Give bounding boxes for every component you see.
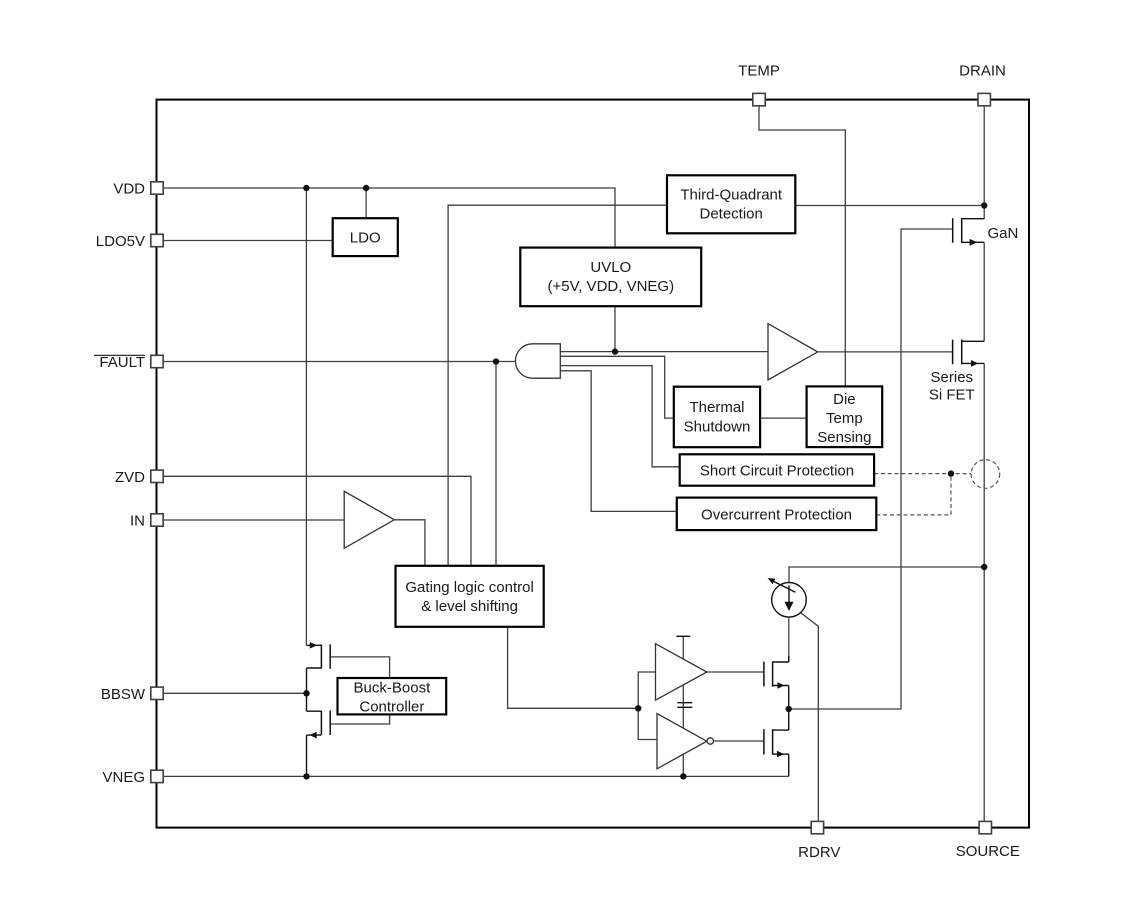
wire VDD rail to UVLO bbox=[163, 188, 615, 248]
buffer upper gate driver bbox=[656, 644, 707, 701]
svg-text:BBSW: BBSW bbox=[101, 686, 146, 703]
svg-text:LDO5V: LDO5V bbox=[96, 233, 145, 250]
wire IN bbox=[163, 519, 344, 521]
dashed net Short Circuit Protection to sense node bbox=[874, 473, 971, 475]
capacitor between driver buffers bbox=[677, 703, 692, 708]
current source to RDRV bbox=[768, 578, 807, 617]
block LDO bbox=[333, 218, 398, 256]
svg-text:Sensing: Sensing bbox=[817, 429, 871, 446]
wire DRAIN pin bbox=[983, 106, 985, 219]
svg-text:& level shifting: & level shifting bbox=[421, 598, 518, 615]
label GaN bbox=[988, 225, 1019, 242]
transistor upper driver FET bbox=[764, 656, 789, 709]
pin VNEG bbox=[102, 769, 163, 786]
svg-text:Thermal: Thermal bbox=[689, 399, 744, 416]
pin IN bbox=[130, 513, 163, 530]
svg-text:SOURCE: SOURCE bbox=[956, 843, 1020, 860]
transistor buck-boost low side bbox=[307, 693, 331, 776]
wire buffer to Si FET gate bbox=[818, 351, 953, 353]
svg-text:Buck-Boost: Buck-Boost bbox=[354, 680, 432, 697]
wire Third-Quadrant to drain node bbox=[795, 205, 984, 207]
svg-text:VDD: VDD bbox=[113, 181, 145, 198]
block Overcurrent Protection bbox=[677, 498, 877, 530]
junction dot FAULT gating bbox=[493, 358, 499, 364]
svg-text:Series: Series bbox=[931, 369, 974, 386]
buffer IN input bbox=[344, 491, 394, 548]
svg-text:DRAIN: DRAIN bbox=[959, 62, 1006, 79]
pin RDRV bbox=[798, 821, 840, 861]
AND gate for FAULT bbox=[515, 344, 560, 378]
wire UVLO to AND and buffer bbox=[560, 306, 768, 351]
junction dot BBSW bbox=[303, 690, 309, 696]
wire gating logic to Third-Quadrant bbox=[448, 205, 667, 566]
svg-text:IN: IN bbox=[130, 513, 145, 530]
wire AND input 3 to Short Circuit Protection bbox=[560, 366, 679, 467]
wire buck-boost gate lower bbox=[330, 714, 389, 724]
svg-text:Overcurrent Protection: Overcurrent Protection bbox=[701, 507, 852, 524]
transistor buck-boost high side bbox=[307, 642, 331, 693]
junction dot driver output bbox=[786, 706, 792, 712]
wire buck-boost gate upper bbox=[330, 657, 389, 678]
svg-text:Third-Quadrant: Third-Quadrant bbox=[680, 187, 783, 204]
wire Si FET source to SOURCE pin bbox=[983, 363, 985, 821]
block Die Temp Sensing bbox=[807, 386, 883, 447]
svg-text:Gating logic control: Gating logic control bbox=[405, 579, 533, 596]
dashed net Overcurrent Protection to sense node bbox=[876, 474, 951, 515]
svg-text:Short Circuit Protection: Short Circuit Protection bbox=[700, 463, 854, 480]
pin BBSW bbox=[101, 686, 163, 703]
svg-text:Si FET: Si FET bbox=[929, 386, 975, 403]
block Thermal Shutdown bbox=[674, 387, 760, 448]
inverter lower gate driver bbox=[657, 714, 714, 769]
pin DRAIN bbox=[959, 62, 1006, 106]
wire FAULT bbox=[163, 361, 515, 363]
junction dot drain node bbox=[981, 202, 987, 208]
sense element dashed circle bbox=[971, 460, 1000, 489]
wire FAULT to gating logic bbox=[495, 362, 497, 566]
pin FAULT (active low) bbox=[94, 354, 163, 371]
wire lower driver buffer output bbox=[714, 740, 764, 742]
wire VNEG rail bbox=[163, 775, 789, 777]
svg-text:VNEG: VNEG bbox=[102, 769, 145, 786]
junction dot UVLO AND input bbox=[612, 348, 618, 354]
wire gating logic to driver input node bbox=[508, 627, 639, 708]
wire LDO stub bbox=[365, 188, 367, 218]
junction dot VNEG left bbox=[303, 773, 309, 779]
svg-text:Detection: Detection bbox=[700, 206, 763, 223]
buffer Si FET driver bbox=[768, 324, 818, 380]
junction dot source sense bbox=[981, 564, 987, 570]
wire AND input 2 to Thermal Shutdown bbox=[560, 356, 674, 418]
junction dot VDD LDO bbox=[363, 185, 369, 191]
pin LDO5V bbox=[96, 233, 163, 250]
svg-text:TEMP: TEMP bbox=[738, 62, 780, 79]
junction dot VNEG buffer bbox=[680, 773, 686, 779]
svg-text:Controller: Controller bbox=[359, 699, 424, 716]
wire TEMP to Die Temp Sensing bbox=[759, 106, 845, 386]
wire IN buffer to gating logic bbox=[394, 520, 425, 566]
wire current source to source node bbox=[789, 567, 984, 583]
junction dot dashed net bbox=[948, 470, 954, 476]
transistor Series Si FET bbox=[953, 339, 985, 366]
svg-text:Die: Die bbox=[833, 391, 856, 408]
wire GaN source to Si FET drain bbox=[983, 242, 985, 341]
wire Thermal Shutdown to Die Temp Sensing bbox=[760, 417, 807, 419]
svg-text:LDO: LDO bbox=[350, 230, 381, 247]
label Series Si FET bbox=[929, 369, 975, 404]
wire LDO5V bbox=[163, 240, 333, 242]
wire upper driver buffer output bbox=[707, 671, 764, 673]
svg-text:Temp: Temp bbox=[826, 410, 863, 427]
pin VDD bbox=[113, 181, 163, 198]
wire ZVD to gating logic bbox=[163, 476, 471, 566]
transistor lower driver FET bbox=[764, 709, 789, 776]
wire current source to upper driver FET bbox=[788, 617, 790, 662]
transistor GaN FET bbox=[953, 218, 985, 246]
wire VDD left vertical bbox=[305, 188, 307, 645]
pin ZVD bbox=[115, 469, 163, 486]
wire current source to RDRV bbox=[801, 613, 818, 822]
block Buck-Boost Controller bbox=[338, 678, 447, 716]
svg-text:UVLO: UVLO bbox=[590, 259, 631, 276]
svg-text:GaN: GaN bbox=[988, 225, 1019, 242]
junction dot VDD left bbox=[303, 185, 309, 191]
block Short Circuit Protection bbox=[680, 454, 874, 485]
pin TEMP bbox=[738, 62, 780, 106]
svg-text:(+5V, VDD, VNEG): (+5V, VDD, VNEG) bbox=[548, 278, 675, 295]
wire driver output to GaN gate bbox=[789, 229, 953, 709]
block Third-Quadrant Detection bbox=[667, 175, 795, 233]
junction dot driver input bbox=[635, 705, 641, 711]
wire BBSW bbox=[163, 692, 306, 694]
wire driver buffer supply rail bbox=[676, 636, 690, 776]
pin SOURCE bbox=[956, 821, 1020, 860]
IC boundary bbox=[157, 100, 1030, 828]
wire driver input bracket bbox=[638, 672, 657, 740]
svg-text:Shutdown: Shutdown bbox=[684, 419, 751, 436]
block UVLO U1 bbox=[520, 248, 701, 307]
block Gating logic control and level shifting bbox=[396, 566, 544, 627]
svg-text:ZVD: ZVD bbox=[115, 469, 145, 486]
svg-text:RDRV: RDRV bbox=[798, 844, 840, 861]
svg-text:FAULT: FAULT bbox=[99, 354, 145, 371]
wire AND input 4 to Overcurrent Protection bbox=[560, 371, 677, 512]
